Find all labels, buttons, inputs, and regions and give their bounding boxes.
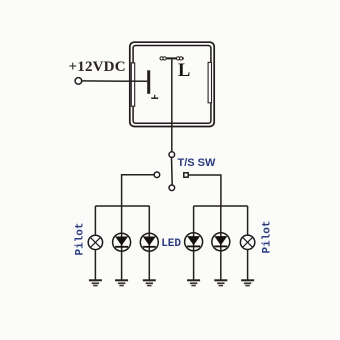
ground G3 [143,280,156,285]
terminal bar end dots [160,57,183,60]
T/S switch pole node [169,152,175,158]
right bus [194,205,248,207]
wire LED2 drop [148,206,150,280]
svg-text:Pilot: Pilot [75,222,87,255]
LED D1 [113,233,131,251]
relay left side tab [131,63,134,106]
ground G5 [214,280,227,285]
pilot lamp left [88,235,102,249]
svg-text:L: L [178,61,190,81]
svg-text:+12VDC: +12VDC [69,59,126,75]
switch blade [171,157,174,185]
left bus [95,205,149,207]
wire right pilot drop [247,206,249,235]
wire LED4 drop [220,206,222,280]
relay top terminal bar L [160,57,184,59]
wire LED3 drop [193,206,195,280]
LED D3 [185,233,203,251]
wire left pilot drop [94,206,96,235]
LED D2 [140,233,158,251]
plus sign [151,95,158,98]
pilot lamp right [240,235,254,249]
svg-text:LED: LED [161,238,181,250]
ground G1 [89,280,102,285]
relay internal contact bar [147,70,150,94]
wire relay output down to switch [171,59,173,152]
switch left contact [154,172,160,178]
wire left contact to left bus [122,175,155,206]
ground G6 [241,280,254,285]
LED D4 [212,233,230,251]
wire LED1 drop [121,206,123,280]
ground G4 [187,280,200,285]
svg-text:T/S SW: T/S SW [178,157,217,169]
relay box U1 (flasher relay outline, double border) [130,42,214,126]
ground G2 [115,280,128,285]
terminal +12VDC [75,78,82,85]
svg-text:Pilot: Pilot [262,220,274,253]
switch bottom node [169,185,175,191]
relay right side tab [208,62,211,102]
wire right contact to right bus [188,175,221,206]
wire +12VDC to relay internal bar [82,80,148,82]
switch right contact [184,173,188,177]
